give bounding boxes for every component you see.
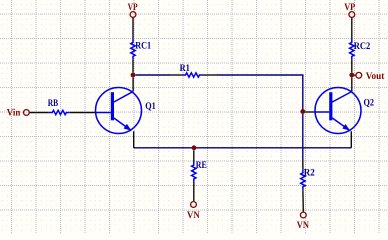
wire RE to VN port [193, 183, 195, 202]
power port VN (left) [187, 202, 200, 221]
svg-text:R2: R2 [304, 168, 315, 179]
node D junction [349, 73, 354, 78]
svg-text:RB: RB [48, 98, 59, 109]
node C junction (RE tap) [192, 145, 197, 150]
wire Q2 emitter stub [350, 131, 352, 148]
svg-text:Vout: Vout [366, 71, 385, 82]
R1 right pin [203, 74, 217, 76]
transistor Q2 [315, 88, 374, 134]
power port VP (left) [128, 2, 138, 17]
port Vout [356, 71, 385, 82]
wire Q1 collector stub [132, 78, 134, 92]
wire R1 to node B (corner) [217, 75, 303, 112]
wire node B to Q2 base [305, 111, 315, 113]
node A junction [131, 73, 136, 78]
wire RC2 to node D [351, 60, 353, 73]
port Vin [7, 108, 30, 119]
svg-text:VN: VN [297, 220, 310, 231]
resistor RC1 [131, 39, 151, 60]
wire RC1 to node A [132, 60, 134, 73]
wire R2 to VN port [302, 190, 304, 211]
svg-text:Q2: Q2 [364, 97, 375, 108]
R2 top pin [302, 160, 304, 169]
resistor R2 [301, 168, 315, 191]
svg-text:RC2: RC2 [354, 41, 371, 52]
resistor R1 [180, 63, 203, 77]
svg-text:RC1: RC1 [135, 41, 151, 52]
wire Q2 collector stub [351, 78, 353, 92]
node B junction (Q2 base) [300, 109, 305, 114]
wire Q1 emitter stub [133, 131, 135, 148]
resistor RB [48, 98, 70, 115]
R1 left pin [170, 74, 182, 76]
Q2 base pin (inside circle) [315, 111, 329, 113]
resistor RC2 [350, 39, 371, 60]
resistor RE [192, 160, 207, 182]
power port VP (right) [344, 2, 355, 17]
wire VP to RC1 [132, 18, 134, 39]
power port VN (right) [297, 212, 310, 231]
svg-text:VN: VN [187, 210, 200, 221]
wire RB to Q1 base [70, 112, 96, 114]
wire node A to R1 [136, 74, 171, 76]
wire Vin to RB [30, 112, 49, 114]
svg-text:R1: R1 [180, 63, 190, 74]
wire VP to RC2 [351, 18, 353, 39]
emitter wire (long) [134, 147, 352, 149]
wire node B down to R2 [302, 114, 304, 160]
wire node C to RE [193, 150, 195, 161]
wire node D to Vout port [354, 74, 355, 76]
svg-text:Q1: Q1 [145, 101, 156, 112]
Q1 base pin (inside circle) [96, 112, 111, 114]
transistor Q1 [96, 88, 156, 134]
svg-text:VP: VP [344, 2, 355, 13]
svg-text:Vin: Vin [7, 108, 21, 119]
svg-text:RE: RE [196, 160, 207, 171]
